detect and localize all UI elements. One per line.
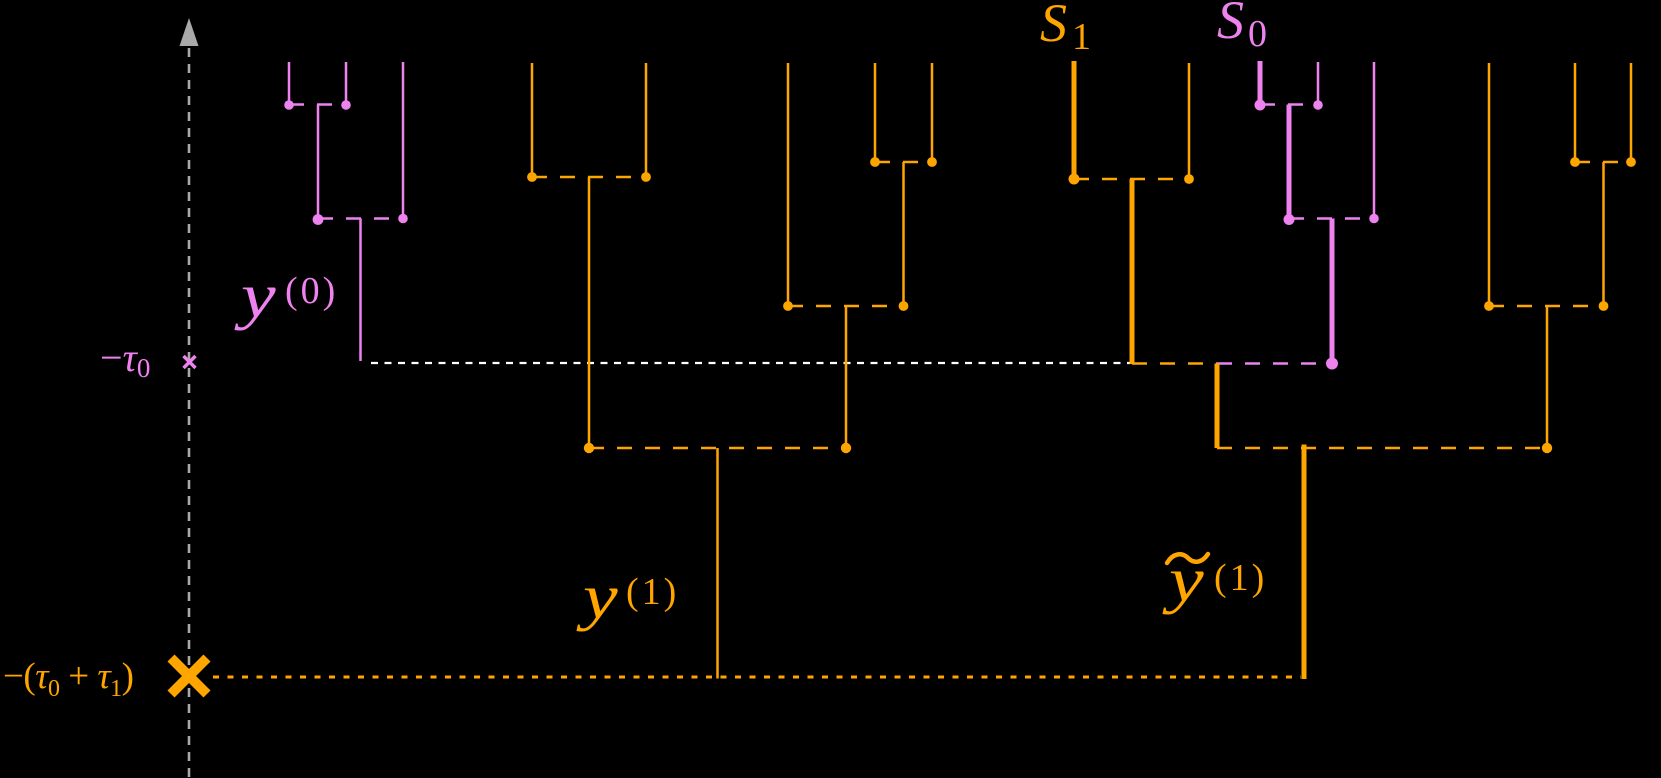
Y~(1) trunk (thick) [1302, 445, 1307, 680]
node dot (903.5,306) [899, 301, 909, 311]
merge of spine and tree C dashed [1217, 447, 1547, 450]
treeC merge 2 dashed [1489, 305, 1604, 308]
treeA merge dashed [532, 176, 646, 179]
node dot (1631,162) [1626, 157, 1636, 167]
svg-text:(1): (1) [626, 571, 679, 613]
node dot (788,306) [783, 301, 793, 311]
treeC leaf 2 [1574, 63, 1577, 162]
S0 side leaf 1 [1317, 62, 1320, 105]
treeB leaf 2 [874, 63, 877, 162]
S0 trunk (thick) [1330, 219, 1335, 364]
node dot (1260,105) [1255, 100, 1266, 111]
label Y(0) [234, 261, 338, 332]
level line -tau0 (white dotted) [371, 362, 1130, 364]
treeA node dots [527, 172, 651, 453]
Y0 trunk [359, 219, 362, 362]
treeB leaf 3 [931, 63, 934, 162]
node dot (1189,179) [1184, 174, 1194, 184]
Y0 merge 1 dashed [289, 103, 346, 106]
Y0 leaf 2 [345, 62, 348, 105]
treeA trunk [588, 177, 591, 448]
svg-text:y: y [576, 562, 618, 633]
time axis (dashed vertical) [188, 48, 191, 778]
treeB node dots [783, 157, 937, 453]
treeB trunk [845, 306, 848, 448]
node dot (589,448) [584, 443, 594, 453]
node dot (318,219.5) [313, 214, 324, 225]
Y0 merge 2 dashed [318, 217, 403, 220]
node dot (1489,306) [1484, 301, 1494, 311]
node dot (1575,162) [1570, 157, 1580, 167]
merge of tree A and tree B dashed [589, 447, 846, 450]
treeB internal branch [902, 162, 905, 306]
level line -(tau0+tau1) (orange dotted) [213, 676, 1301, 679]
node dot (346,105) [341, 100, 351, 110]
treeB merge 2 dashed [788, 305, 904, 308]
node dot (1603.5,306) [1599, 301, 1609, 311]
node dot (1547,448) [1542, 443, 1552, 453]
node dot (1289,219.5) [1284, 214, 1295, 225]
node dot (875,162) [870, 157, 880, 167]
node dot (532,177) [527, 172, 537, 182]
treeB merge 1 dashed [875, 161, 932, 164]
S0 merge 1 dashed [1260, 103, 1318, 106]
S1 merge dashed [1074, 178, 1189, 181]
Y(1) trunk [716, 448, 719, 679]
S1 lineage dashed at -tau0 level [1132, 362, 1217, 365]
S0 side leaf 2 [1373, 62, 1376, 219]
S1 node dots [1069, 174, 1194, 185]
node dot (1318,105) [1313, 100, 1323, 110]
node dot (846,448) [841, 443, 851, 453]
treeC internal branch [1602, 162, 1605, 306]
treeC merge 1 dashed [1575, 161, 1631, 164]
Y0 node dots [284, 100, 408, 225]
label Y~(1) [1162, 545, 1267, 616]
node dot (932,162) [927, 157, 937, 167]
treeB leaf 1 [787, 63, 790, 306]
time axis arrowhead [180, 18, 199, 46]
node dot (646,177) [641, 172, 651, 182]
Y0 leaf 1 [288, 62, 291, 105]
S0 leaf (thick) [1258, 61, 1263, 105]
S1 trunk (thick) [1130, 179, 1135, 364]
svg-text:y: y [234, 261, 276, 332]
node dot (1374,218.5) [1369, 214, 1379, 224]
node dot (1074,179) [1069, 174, 1080, 185]
node dot (403,218.5) [398, 214, 408, 224]
treeC node dots [1484, 157, 1636, 453]
S0 merge 2 dashed [1289, 217, 1374, 220]
svg-text:(1): (1) [1214, 557, 1267, 599]
S1 side leaf [1188, 63, 1191, 179]
treeA leaf 2 [645, 63, 648, 177]
marker x at -tau0 [184, 356, 196, 368]
treeA leaf 1 [531, 63, 534, 177]
Y0 leaf 3 [402, 62, 405, 219]
Y0 internal branch [317, 105, 320, 220]
treeC leaf 1 [1488, 63, 1491, 306]
node dot (289,105) [284, 100, 294, 110]
S0 lineage dashed at -tau0 level [1217, 362, 1332, 365]
node dot (1332,363.5) [1326, 358, 1338, 370]
treeC leaf 3 [1630, 63, 1633, 162]
S1 leaf (thick) [1072, 61, 1077, 179]
spine connector (thick) [1215, 364, 1220, 449]
S0 internal branch (thick) [1287, 105, 1292, 220]
treeC trunk [1546, 306, 1549, 448]
marker X at -(tau0+tau1) [171, 658, 207, 694]
label Y(1) [576, 562, 679, 633]
svg-text:(0): (0) [285, 270, 338, 312]
S0 node dots [1255, 100, 1379, 370]
